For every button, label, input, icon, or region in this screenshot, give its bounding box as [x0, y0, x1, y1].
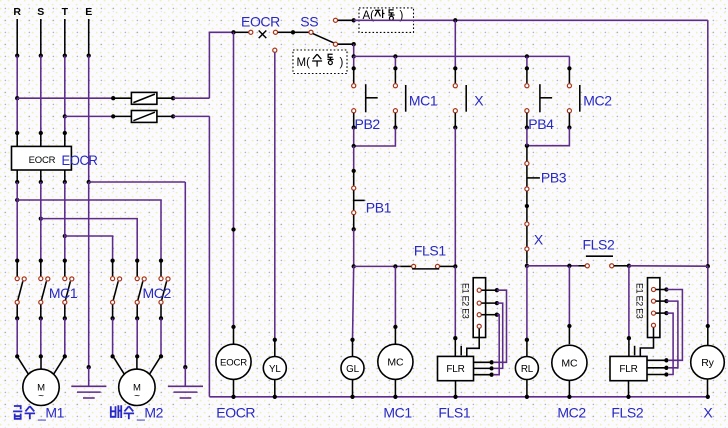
- wire R to MC1 pole1: [16, 182, 18, 261]
- pin EOCR coil bottom: [233, 379, 235, 396]
- relay FLR2 block: [610, 356, 647, 380]
- wire R feeder to MC2 pole3: [15, 198, 19, 202]
- contact X aux: [454, 68, 456, 83]
- node GL junction: [352, 264, 356, 268]
- wire MC1 aux to PB2 bottom: [354, 128, 396, 147]
- pushbutton PB1 (NC): [353, 171, 355, 186]
- wire EOCR box input pins: [16, 133, 18, 146]
- pin E2 (FLS2): [656, 300, 667, 302]
- lamp YL: [263, 357, 286, 380]
- pin GL bottom: [352, 380, 354, 397]
- svg-text:S: S: [37, 6, 44, 18]
- svg-text:R: R: [13, 6, 21, 18]
- wire X aux down to FLS1 line: [454, 128, 456, 267]
- svg-text:FLS2: FLS2: [611, 404, 643, 420]
- svg-text:MC: MC: [387, 357, 404, 369]
- relay FLR1 block: [438, 356, 474, 380]
- svg-text:EOCR: EOCR: [62, 152, 98, 168]
- svg-text:EOCR: EOCR: [216, 404, 255, 420]
- wire fuse F2 input: [65, 115, 113, 117]
- svg-text:E1 E2 E3: E1 E2 E3: [460, 283, 470, 319]
- wire fuse F2 output to bottom rail: [173, 115, 209, 117]
- label A(자동) auto position: [359, 8, 414, 33]
- float switch box FLS1 (E1 E2 E3): [473, 278, 485, 338]
- wire Ry coil feed: [707, 266, 709, 326]
- pin E3 (FLS1): [482, 314, 497, 316]
- pin FLR2 top tick: [634, 346, 636, 356]
- ground symbol 1: [88, 367, 90, 386]
- wire E3 to FLR1 pin3: [494, 315, 499, 375]
- svg-text:_M2: _M2: [136, 405, 164, 421]
- ground symbol 2: [184, 367, 186, 386]
- contact X (lower): [526, 206, 528, 222]
- svg-text:GL: GL: [346, 364, 359, 375]
- svg-text:EOCR: EOCR: [241, 13, 280, 29]
- pin FLR2 right 3: [647, 374, 666, 376]
- svg-text:X: X: [474, 93, 484, 109]
- relay coil Ry: [691, 345, 725, 379]
- svg-text:_M1: _M1: [37, 405, 65, 421]
- contactor MC2 main contact pole 2: [135, 258, 139, 262]
- wire MC2 pole to motor M2: [112, 318, 114, 356]
- pushbutton PB4: [526, 68, 528, 83]
- svg-text:PB2: PB2: [355, 116, 381, 132]
- wire MC1 pole to motor M1: [40, 318, 42, 356]
- switch SS selector: [293, 31, 309, 33]
- wire top bus (A position): [354, 19, 708, 21]
- svg-text:PB1: PB1: [366, 200, 392, 216]
- pin FLR2 right 1: [647, 359, 666, 361]
- wire S down to EOCR box: [40, 56, 42, 133]
- svg-text:~: ~: [134, 391, 140, 402]
- pin FLR1 right 3: [474, 374, 492, 376]
- svg-text:MC1: MC1: [383, 404, 412, 420]
- pushbutton PB2: [353, 68, 355, 83]
- wire FLS2 line left: [527, 265, 579, 267]
- svg-text:EOCR: EOCR: [29, 155, 56, 166]
- contactor MC2 main contact pole 1: [110, 258, 114, 262]
- wire MC1 coil feed: [394, 266, 396, 327]
- relay EOCR (overload relay main block): [12, 146, 72, 170]
- wire FLS1 line left: [354, 265, 401, 267]
- pin E2 (FLS1): [482, 302, 497, 304]
- wire PB4 to PB3: [526, 128, 528, 146]
- pin E3 (FLS2): [656, 312, 667, 314]
- contactor MC1 main contact pole 2: [39, 258, 43, 262]
- limit switch FLS2: [579, 265, 586, 267]
- wire PB4 drop: [526, 56, 528, 68]
- svg-text:MC: MC: [561, 358, 578, 370]
- wire E lead-in: [88, 19, 90, 56]
- wire MC1 aux drop: [394, 56, 396, 68]
- pin FLR1 right 2: [474, 367, 492, 369]
- wire PB2 bottom segment: [353, 128, 355, 147]
- wire fuse F1 input: [17, 97, 113, 99]
- svg-text:MC2: MC2: [143, 285, 172, 301]
- pin FLR1 top tick: [460, 346, 462, 356]
- wire GL lamp feed: [353, 266, 354, 339]
- svg-text:PB3: PB3: [541, 170, 567, 186]
- wire YL lamp feed: [273, 48, 277, 52]
- wire FLS1 box common to FLR1: [467, 329, 479, 357]
- contactor coil MC1: [378, 344, 413, 379]
- contactor coil MC2: [552, 345, 587, 380]
- wire S to MC1 pole2: [40, 182, 42, 261]
- limit switch FLS1: [400, 265, 411, 267]
- wire MC1 pole to motor M1: [16, 318, 18, 356]
- lamp RL: [515, 357, 538, 380]
- relay coil EOCR: [216, 344, 251, 379]
- node E junction: [87, 180, 91, 184]
- wire E down: [88, 56, 90, 182]
- wire bottom rail: [209, 396, 707, 398]
- wire FLS2 line right to rail: [629, 265, 708, 267]
- float switch box FLS2 (E1 E2 E3): [648, 278, 660, 338]
- wire RL lamp feed: [526, 266, 528, 340]
- svg-text:~: ~: [38, 391, 44, 402]
- label M(수동) manual position: [293, 50, 347, 74]
- svg-text:X: X: [534, 231, 544, 247]
- wire EOCR coil feed: [233, 32, 235, 327]
- wire fuse F1 output to left rail: [173, 97, 209, 99]
- wire E2 to FLR1 pin2: [494, 303, 503, 368]
- contact MC1 aux: [394, 68, 396, 83]
- wire S lead-in: [40, 19, 42, 56]
- pin FLR1 bottom: [455, 381, 457, 397]
- svg-text:FLS2: FLS2: [583, 236, 615, 252]
- wire R down to fuse tap: [16, 56, 18, 99]
- svg-text:MC1: MC1: [409, 93, 438, 109]
- motor M2 (drain pump): [113, 356, 124, 374]
- svg-text:X: X: [703, 404, 713, 420]
- wire PB2 bottom to PB1: [353, 146, 355, 171]
- contact MC2 aux: [568, 68, 570, 83]
- fuse F1: [113, 97, 131, 99]
- svg-text:FLR: FLR: [446, 364, 464, 375]
- svg-text:YL: YL: [269, 364, 281, 375]
- svg-text:MC2: MC2: [583, 93, 612, 109]
- wire E1 to FLR1 pin1: [494, 290, 507, 362]
- pin E1 (FLS2): [656, 289, 667, 291]
- wire FLS2 box common to FLR2: [640, 328, 653, 357]
- wire manual bus: [353, 44, 355, 56]
- wire E3 to FLR2 pin3: [666, 313, 673, 374]
- pin Ry bottom: [707, 379, 709, 397]
- contact EOCR b-contact: [234, 31, 249, 33]
- wire FLR1 feed: [454, 266, 456, 338]
- wire R lead-in: [16, 19, 18, 56]
- wire left rail (top section): [209, 32, 233, 98]
- wire E2 to FLR2 pin2: [666, 301, 678, 368]
- svg-text:FLS1: FLS1: [414, 242, 446, 258]
- contactor MC1 main contact pole 1: [15, 258, 19, 262]
- wire MC2 coil feed: [568, 266, 570, 326]
- pin FLR2 right 2: [647, 367, 666, 369]
- wire EOCR box output pins: [16, 170, 18, 182]
- contactor MC1 main contact pole 3: [63, 258, 67, 262]
- svg-text:E1 E2 E3: E1 E2 E3: [635, 283, 645, 319]
- svg-text:Ry: Ry: [701, 357, 714, 369]
- svg-text:T: T: [62, 6, 69, 18]
- fuse F2: [113, 115, 131, 117]
- motor M1 (supply pump): [17, 356, 28, 374]
- wire T to MC1 pole3: [64, 182, 66, 261]
- wire T feeder to MC2 pole1: [63, 234, 67, 238]
- svg-text:PB4: PB4: [528, 116, 554, 132]
- wire FLR2 feed: [628, 266, 630, 338]
- svg-text:): ): [340, 57, 344, 69]
- wire MC2 pole to motor M2: [160, 318, 162, 356]
- label 급수_M1 (supply M1): [13, 406, 22, 419]
- pushbutton PB3 (NC): [526, 146, 528, 162]
- wire E down to ground 1: [88, 182, 90, 367]
- wire E1 to FLR2 pin1: [666, 290, 682, 361]
- pin YL bottom: [274, 380, 276, 397]
- wire S feeder to MC2 pole2: [39, 216, 43, 220]
- pin FLR1 right 1: [474, 361, 492, 363]
- pin E1 (FLS1): [482, 289, 497, 291]
- lamp GL: [341, 357, 364, 380]
- pin MC2 coil bottom: [568, 380, 570, 396]
- label 배수_M2 (drain M2): [111, 405, 121, 418]
- wire T down to fuse tap: [64, 56, 66, 117]
- wire T lead-in: [64, 19, 66, 56]
- svg-text:EOCR: EOCR: [220, 358, 247, 369]
- wire X aux drop: [454, 20, 456, 68]
- wire PB2 drop: [353, 56, 355, 68]
- pin RL bottom: [526, 380, 528, 397]
- svg-text:E: E: [85, 6, 92, 18]
- wire MC2 pole to motor M2: [136, 318, 138, 356]
- svg-text:MC2: MC2: [557, 404, 586, 420]
- contactor MC2 main contact pole 3: [159, 258, 163, 262]
- wire E branch to ground 2: [89, 181, 186, 183]
- svg-text:SS: SS: [300, 13, 318, 29]
- svg-text:FLR: FLR: [619, 364, 637, 375]
- wire right rail: [707, 20, 709, 266]
- svg-text:FLS1: FLS1: [438, 404, 470, 420]
- wire left rail (bottom section): [208, 116, 210, 396]
- svg-text:MC1: MC1: [49, 285, 78, 301]
- svg-text:M(: M(: [297, 57, 311, 69]
- wire MC2 aux to PB4 bottom: [527, 128, 570, 146]
- wire MC1 pole to motor M1: [64, 318, 66, 356]
- pin FLR2 bottom: [628, 381, 630, 397]
- wire PB1 to FLS1 line: [353, 229, 355, 266]
- pin MC1 coil bottom: [394, 379, 396, 396]
- svg-text:RL: RL: [521, 364, 534, 375]
